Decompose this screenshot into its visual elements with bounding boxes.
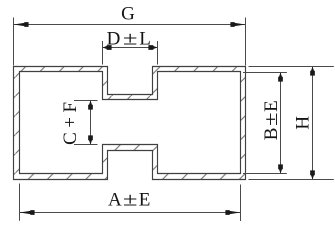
- A±E arrow left: [20, 210, 35, 215]
- G extension line left: [13, 18, 15, 66]
- svg-text:L: L: [139, 28, 151, 49]
- svg-text:H: H: [293, 116, 314, 130]
- D±L dimension line: [103, 47, 158, 49]
- outer contour (outside-air boundary of section): [14, 67, 246, 180]
- H extension line bottom: [249, 179, 334, 181]
- A±E arrow right: [225, 210, 240, 215]
- svg-text:E: E: [139, 189, 151, 210]
- svg-text:B: B: [261, 128, 282, 141]
- svg-text:A: A: [108, 189, 122, 210]
- D±L extension line right: [157, 41, 159, 65]
- B±E extension line top: [243, 72, 287, 74]
- C+F arrow down: [88, 135, 93, 144]
- B±E arrow up: [278, 73, 283, 82]
- G extension line right: [245, 18, 247, 66]
- B±E arrow down: [278, 164, 283, 173]
- C+F extension line top: [74, 100, 98, 102]
- G arrow left: [14, 22, 29, 27]
- H dimension line: [312, 67, 314, 180]
- svg-text:E: E: [261, 100, 282, 112]
- B±E extension line bottom: [243, 173, 287, 175]
- C+F arrow up: [88, 101, 93, 110]
- part cross-section: hatched wall band between outer and inner contours: [14, 67, 246, 180]
- svg-text:±: ±: [123, 188, 138, 209]
- G arrow right: [230, 22, 245, 27]
- svg-text:±: ±: [260, 112, 282, 126]
- svg-text:C+F: C+F: [60, 97, 81, 144]
- C+F extension line bottom: [74, 144, 98, 146]
- H arrow up: [310, 67, 315, 76]
- H extension line top: [249, 66, 334, 68]
- B±E dimension line: [280, 73, 282, 174]
- inner contour (hollow-cavity boundary of section): [20, 72, 241, 174]
- D±L arrow right: [148, 45, 157, 50]
- svg-text:G: G: [121, 3, 135, 24]
- svg-text:D: D: [107, 28, 121, 49]
- D±L arrow left: [103, 45, 112, 50]
- svg-text:±: ±: [123, 27, 138, 48]
- C+F dimension line: [90, 101, 92, 145]
- A±E dimension line: [20, 212, 241, 214]
- D±L extension line left: [102, 41, 104, 65]
- H arrow down: [310, 170, 315, 179]
- A±E extension line left: [19, 184, 21, 221]
- A±E extension line right: [240, 185, 242, 222]
- G dimension line: [14, 24, 246, 26]
